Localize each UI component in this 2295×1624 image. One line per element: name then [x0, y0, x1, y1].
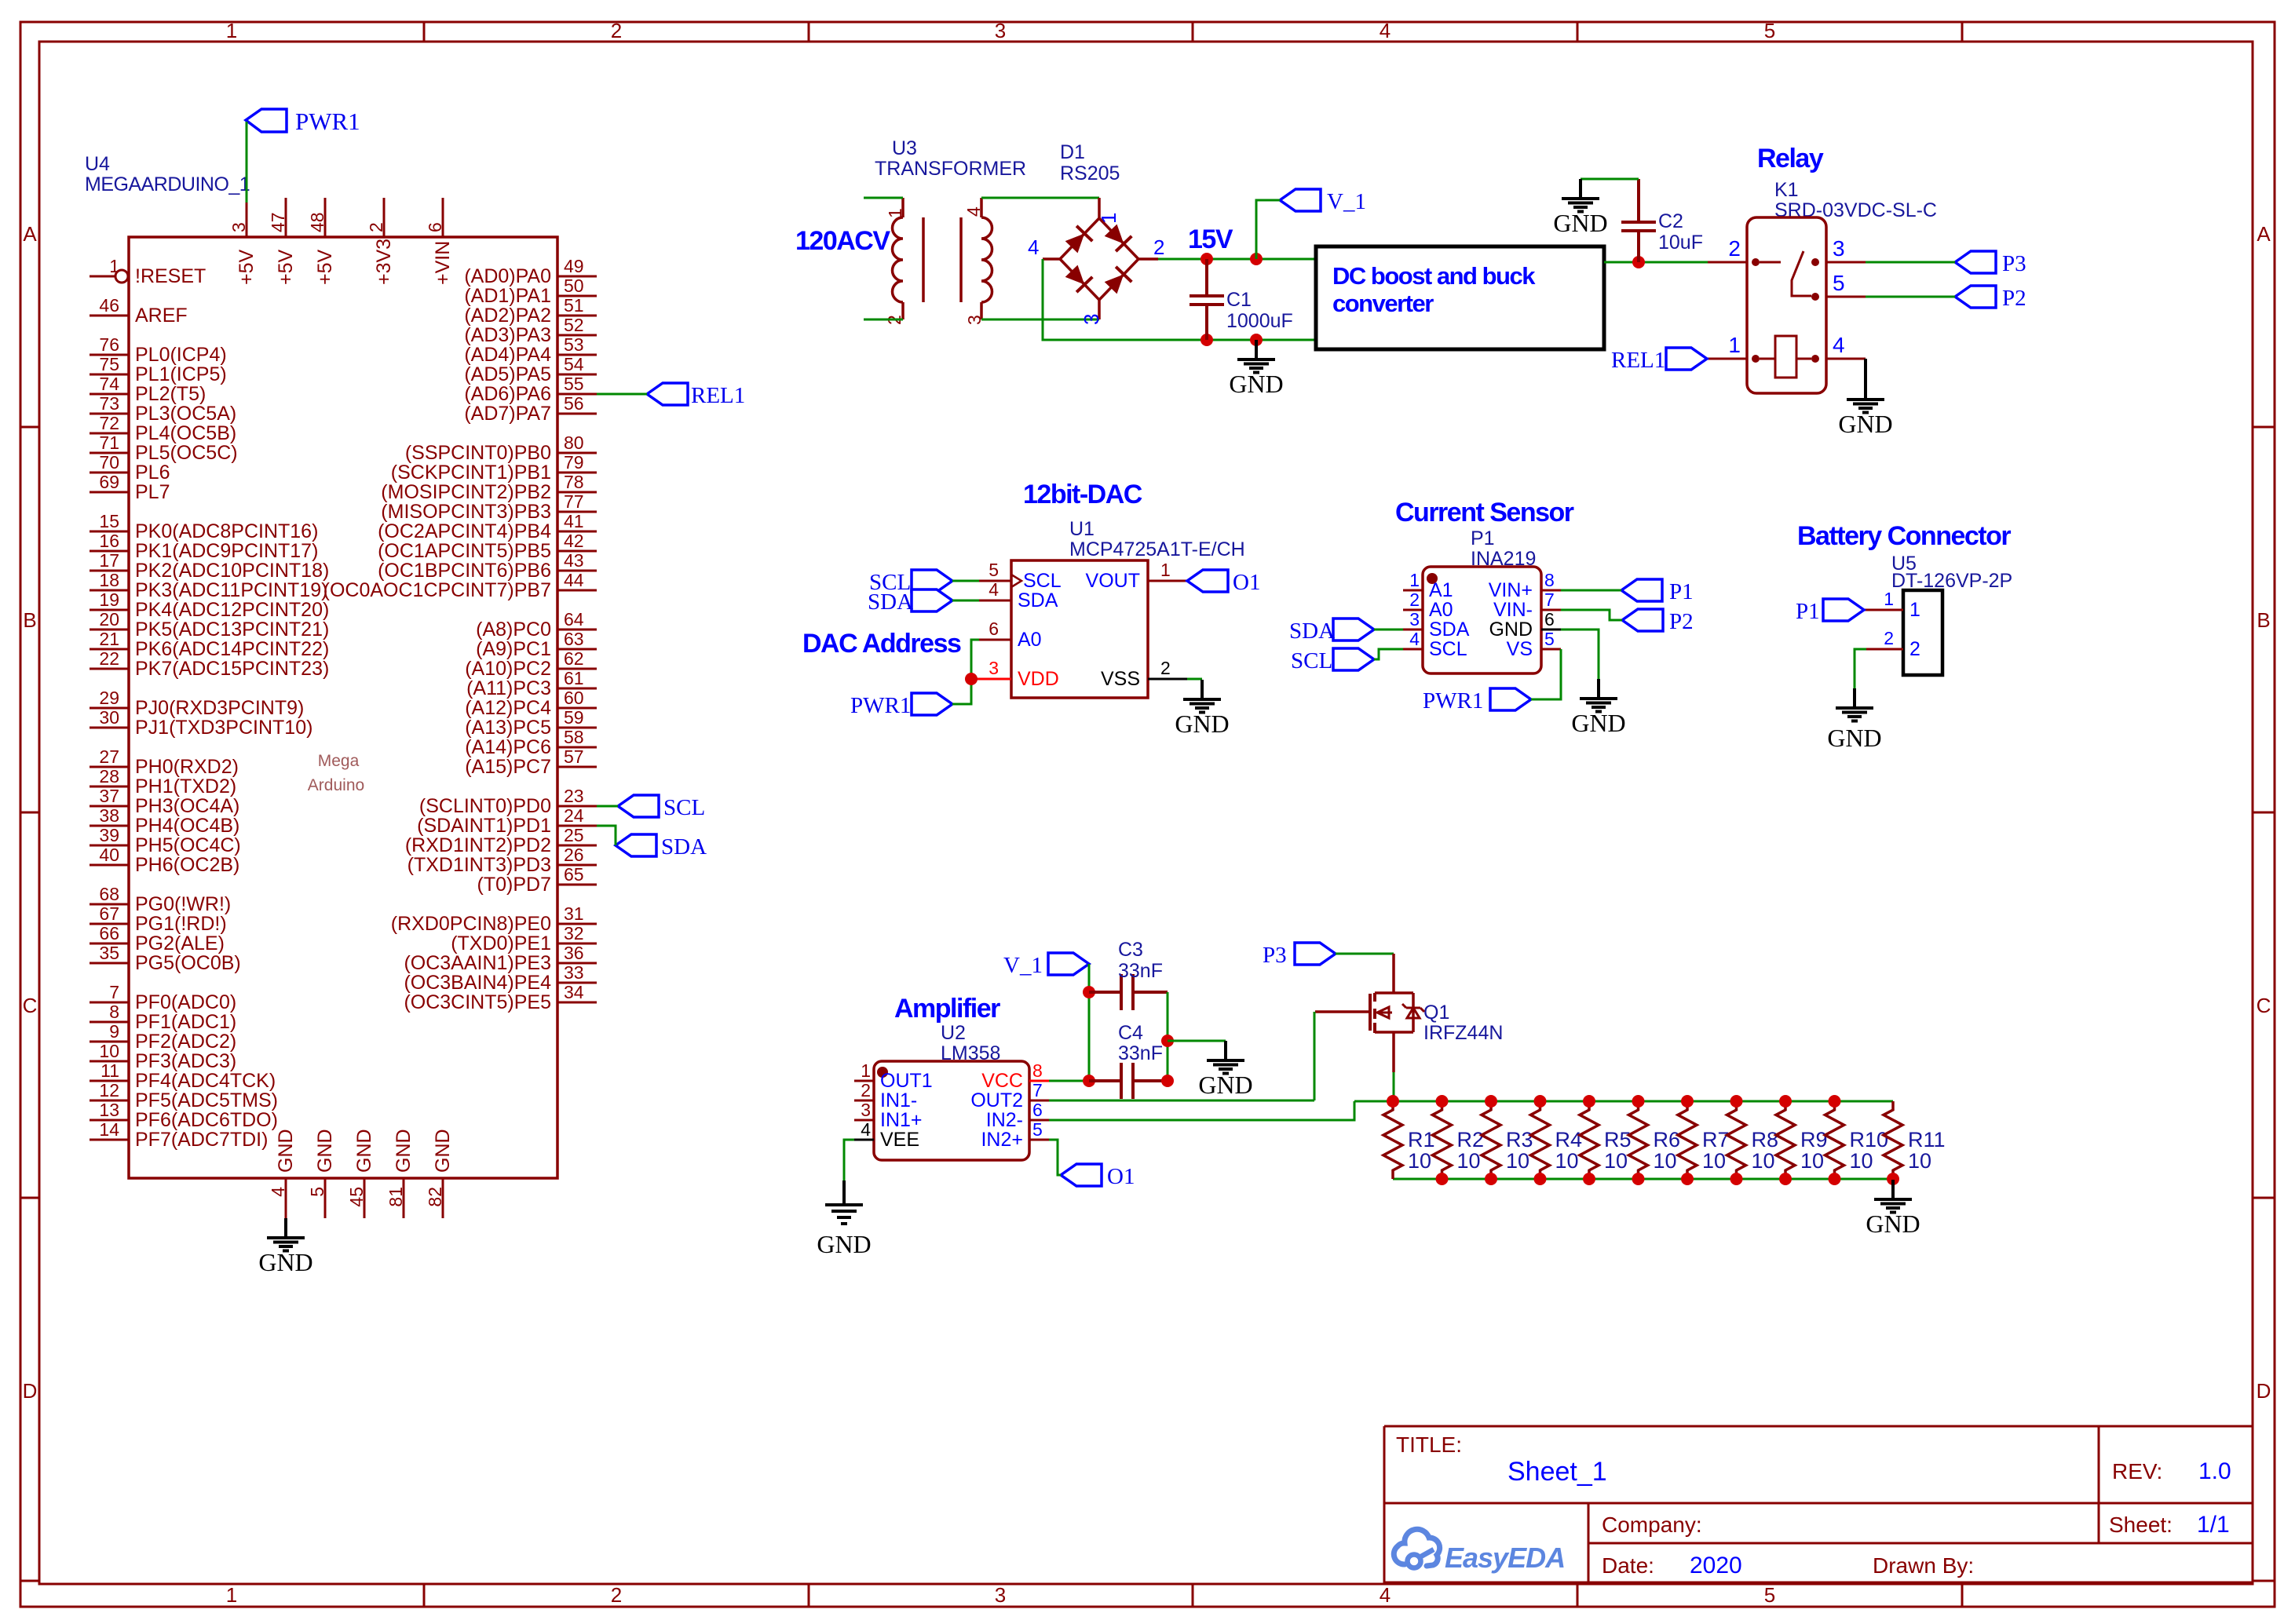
U4 pin 82 GND — [442, 1178, 444, 1218]
svg-text:1000uF: 1000uF — [1226, 310, 1293, 332]
net flag P3 (Q1 drain) — [1263, 943, 1336, 968]
svg-text:PK7(ADC15PCINT23): PK7(ADC15PCINT23) — [135, 658, 329, 680]
wire U2 IN2+ to O1 — [1049, 1140, 1061, 1175]
resistor R10 10 — [1825, 1101, 1889, 1179]
svg-text:GND: GND — [314, 1129, 336, 1173]
svg-text:R1: R1 — [1408, 1128, 1435, 1151]
svg-text:10: 10 — [1555, 1149, 1579, 1173]
U4 pin 24 (SDAINT1)PD1 — [557, 825, 597, 827]
svg-text:(A14)PC6: (A14)PC6 — [465, 736, 551, 758]
U4 pin 70 PL6 — [90, 472, 129, 474]
U4 pin 56 (AD7)PA7 — [557, 413, 597, 415]
U4 pin 1 !RESET — [90, 276, 115, 278]
svg-text:PK2(ADC10PCINT18): PK2(ADC10PCINT18) — [135, 560, 329, 582]
svg-text:PWR1: PWR1 — [850, 693, 911, 718]
svg-text:C: C — [23, 994, 38, 1017]
capacitor C3 33nF — [1089, 939, 1168, 1010]
resistor R8 10 — [1727, 1101, 1779, 1179]
U4 pin 23 (SCLINT0)PD0 — [557, 805, 597, 808]
wire bridge pin4 to ground rail — [1043, 259, 1316, 340]
svg-text:5: 5 — [1764, 1583, 1775, 1607]
svg-text:1: 1 — [885, 208, 905, 218]
U1 pin 4 SDA — [979, 600, 1011, 602]
svg-text:1.0: 1.0 — [2198, 1458, 2231, 1484]
wire INA GND pin to ground — [1561, 630, 1599, 679]
svg-text:(SSPCINT0)PB0: (SSPCINT0)PB0 — [405, 442, 551, 464]
wire transformer pin2 stub — [864, 319, 903, 321]
svg-text:PL1(ICP5): PL1(ICP5) — [135, 363, 227, 385]
svg-text:39: 39 — [99, 825, 119, 845]
title block — [1384, 1426, 2253, 1584]
svg-text:13: 13 — [99, 1100, 119, 1120]
op-amp U2 LM358 — [854, 1022, 1049, 1160]
wire SCL flag to INA pin4 — [1374, 649, 1403, 659]
svg-text:6: 6 — [1032, 1100, 1043, 1120]
svg-text:VIN-: VIN- — [1493, 599, 1533, 621]
svg-text:46: 46 — [99, 295, 119, 316]
svg-text:2: 2 — [611, 1583, 622, 1607]
svg-text:4: 4 — [1380, 1583, 1391, 1607]
node junction C4 left / VCC — [1083, 1075, 1095, 1087]
resistor R2 10 — [1433, 1101, 1485, 1179]
U4 pin 81 GND — [403, 1178, 405, 1218]
svg-text:PH3(OC4A): PH3(OC4A) — [135, 795, 239, 817]
svg-text:3: 3 — [989, 658, 999, 678]
svg-text:PWR1: PWR1 — [1423, 688, 1483, 713]
net flag O1 (DAC VOUT) — [1187, 570, 1260, 595]
wire V_1 to 15V rail — [1256, 200, 1280, 259]
svg-text:R11: R11 — [1908, 1128, 1946, 1151]
net flag V_1 (amplifier VCC) — [1003, 953, 1089, 978]
svg-text:PJ0(RXD3PCINT9): PJ0(RXD3PCINT9) — [135, 697, 304, 719]
resistor R6 10 — [1629, 1101, 1681, 1179]
U4 pin 19 PK4(ADC12PCINT20) — [90, 609, 129, 611]
svg-text:VDD: VDD — [1018, 668, 1059, 690]
svg-text:(AD5)PA5: (AD5)PA5 — [464, 363, 551, 385]
U4 pin 15 PK0(ADC8PCINT16) — [90, 531, 129, 533]
svg-text:PL4(OC5B): PL4(OC5B) — [135, 422, 236, 444]
U4 pin 41 (OC2APCINT4)PB4 — [557, 531, 597, 533]
svg-text:(TXD1INT3)PD3: (TXD1INT3)PD3 — [407, 854, 551, 876]
svg-text:PK4(ADC12PCINT20): PK4(ADC12PCINT20) — [135, 599, 329, 621]
net flag P2 (INA VIN-) — [1622, 609, 1694, 634]
wire Q1 source to rail — [1393, 1072, 1395, 1101]
svg-text:Q1: Q1 — [1423, 1002, 1449, 1024]
svg-text:5: 5 — [1544, 629, 1555, 649]
svg-text:GND: GND — [1553, 209, 1607, 237]
P1 pin 7 VIN- — [1541, 609, 1561, 611]
svg-text:4: 4 — [861, 1119, 871, 1140]
svg-text:IN1+: IN1+ — [880, 1109, 923, 1131]
U4 pin 22 PK7(ADC15PCINT23) — [90, 668, 129, 670]
svg-text:SCL: SCL — [1023, 570, 1062, 592]
ground at DAC VSS — [1200, 680, 1204, 699]
svg-text:OUT1: OUT1 — [880, 1070, 933, 1092]
svg-text:51: 51 — [564, 295, 584, 316]
svg-text:4: 4 — [989, 579, 999, 600]
svg-text:52: 52 — [564, 315, 584, 335]
svg-text:58: 58 — [564, 727, 584, 747]
svg-text:(AD7)PA7: (AD7)PA7 — [464, 403, 551, 425]
svg-text:(AD4)PA4: (AD4)PA4 — [464, 344, 551, 366]
svg-text:11: 11 — [100, 1060, 119, 1081]
wire Q1 gate riser — [1314, 1012, 1316, 1100]
svg-text:U4: U4 — [85, 153, 110, 175]
svg-text:81: 81 — [386, 1187, 406, 1207]
current sensor P1 INA219 — [1403, 527, 1561, 673]
svg-text:O1: O1 — [1107, 1164, 1135, 1189]
U4 pin 20 PK5(ADC13PCINT21) — [90, 629, 129, 631]
svg-text:5: 5 — [1833, 271, 1845, 295]
svg-text:PF0(ADC0): PF0(ADC0) — [135, 991, 236, 1013]
K1 pin 5 — [1826, 296, 1866, 298]
U1 pin 3 VDD — [971, 678, 1011, 681]
U4 pin 17 PK2(ADC10PCINT18) — [90, 570, 129, 572]
U4 pin 58 (A14)PC6 — [557, 746, 597, 749]
svg-text:R2: R2 — [1457, 1128, 1485, 1151]
svg-text:GND: GND — [258, 1248, 312, 1276]
svg-text:GND: GND — [275, 1129, 297, 1173]
U4 pin 43 (OC1BPCINT6)PB6 — [557, 570, 597, 572]
U4 pin 72 PL4(OC5B) — [90, 432, 129, 435]
ground at R11 — [1891, 1180, 1895, 1199]
svg-text:53: 53 — [564, 334, 584, 355]
U2 pin 4 VEE — [854, 1139, 874, 1141]
U4 pin 57 (A15)PC7 — [557, 766, 597, 768]
svg-text:PK6(ADC14PCINT22): PK6(ADC14PCINT22) — [135, 638, 329, 660]
U2 pin 3 IN1+ — [854, 1119, 874, 1122]
wire U2 IN2- to resistor rail — [1049, 1101, 1354, 1120]
svg-text:55: 55 — [564, 374, 584, 394]
U4 pin 75 PL1(ICP5) — [90, 374, 129, 376]
svg-text:10: 10 — [1604, 1149, 1628, 1173]
net flag P1 (battery pin1) — [1796, 599, 1864, 624]
wire relay pin3 to P3 — [1866, 261, 1955, 264]
svg-text:15V: 15V — [1188, 224, 1233, 254]
U4 pin 9 PF2(ADC2) — [90, 1041, 129, 1043]
U2 pin 7 OUT2 — [1029, 1100, 1049, 1102]
U4 pin 74 PL2(T5) — [90, 393, 129, 396]
svg-text:3: 3 — [861, 1100, 871, 1120]
wire U4 PD1 to SDA flag — [597, 826, 616, 845]
U4 pin 54 (AD5)PA5 — [557, 374, 597, 376]
svg-text:73: 73 — [99, 393, 119, 414]
svg-text:45: 45 — [346, 1187, 367, 1207]
resistor R5 10 — [1580, 1101, 1632, 1179]
svg-text:9: 9 — [109, 1021, 119, 1042]
U4 pin 49 (AD0)PA0 — [557, 276, 597, 278]
U4 pin 10 PF3(ADC3) — [90, 1060, 129, 1063]
svg-text:(MOSIPCINT2)PB2: (MOSIPCINT2)PB2 — [381, 481, 551, 503]
DAC U1 MCP4725A1T-E/CH — [971, 518, 1245, 698]
U4 pin 66 PG2(ALE) — [90, 943, 129, 945]
svg-text:VCC: VCC — [981, 1070, 1023, 1092]
wire INA VS to PWR1 — [1531, 649, 1561, 699]
svg-text:P3: P3 — [1263, 943, 1287, 968]
svg-text:68: 68 — [99, 884, 119, 904]
svg-text:OUT2: OUT2 — [970, 1089, 1023, 1111]
svg-text:O1: O1 — [1233, 570, 1260, 595]
svg-text:+3V3: +3V3 — [373, 239, 395, 285]
svg-text:50: 50 — [564, 276, 584, 296]
wire transformer pin1 stub — [864, 197, 903, 199]
U4 pin 64 (A8)PC0 — [557, 629, 597, 631]
wire PWR1 to DAC VDD and A0 — [952, 640, 979, 704]
wire battery pin2 to ground — [1855, 649, 1866, 688]
svg-text:34: 34 — [564, 982, 584, 1002]
svg-text:3: 3 — [1833, 236, 1845, 261]
svg-text:!RESET: !RESET — [135, 265, 206, 287]
svg-text:12bit-DAC: 12bit-DAC — [1023, 480, 1142, 509]
svg-text:R9: R9 — [1800, 1128, 1828, 1151]
svg-text:7: 7 — [109, 982, 119, 1002]
ground at INA GND — [1597, 679, 1600, 698]
svg-text:57: 57 — [564, 746, 584, 767]
U4 pin 34 (OC3CINT5)PE5 — [557, 1002, 597, 1004]
capacitor C4 33nF — [1089, 1022, 1168, 1099]
net flag SDA (INA219) — [1289, 619, 1374, 644]
ground below C1 rail — [1255, 340, 1258, 359]
wire PWR1 to U4 pin 3 — [246, 122, 248, 203]
U4 pin 13 PF6(ADC6TDO) — [90, 1119, 129, 1122]
ground at U2 VEE — [817, 1181, 871, 1258]
node junction DAC VDD — [965, 673, 978, 685]
node rail top junction — [1534, 1095, 1547, 1108]
svg-text:1: 1 — [1160, 560, 1171, 580]
U4 pin 29 PJ0(RXD3PCINT9) — [90, 707, 129, 710]
svg-text:D1: D1 — [1060, 141, 1085, 163]
node rail bottom junction — [1887, 1173, 1899, 1185]
U4 pin 63 (A9)PC1 — [557, 648, 597, 651]
svg-text:(SCLINT0)PD0: (SCLINT0)PD0 — [419, 795, 551, 817]
svg-text:26: 26 — [564, 845, 584, 865]
svg-text:(SDAINT1)PD1: (SDAINT1)PD1 — [417, 815, 551, 837]
U1 pin 5 SCL — [979, 580, 1011, 582]
svg-text:49: 49 — [564, 256, 584, 276]
svg-text:A0: A0 — [1018, 629, 1042, 651]
svg-text:A: A — [2257, 222, 2271, 246]
wire relay pin5 to P2 — [1866, 296, 1955, 298]
transistor Q1 IRFZ44N — [1315, 954, 1503, 1072]
svg-text:GND: GND — [1229, 370, 1283, 398]
svg-text:SDA: SDA — [868, 589, 913, 615]
U4 pin 69 PL7 — [90, 491, 129, 494]
svg-text:Sheet:: Sheet: — [2109, 1513, 2173, 1537]
net flag REL1 (relay pin1) — [1611, 348, 1707, 373]
wire U2 OUT2 to Q1 gate — [1049, 1100, 1314, 1102]
svg-text:PWR1: PWR1 — [295, 108, 360, 135]
ground at C3/C4 — [1224, 1041, 1227, 1060]
svg-text:GND: GND — [1827, 724, 1881, 752]
svg-text:24: 24 — [564, 805, 584, 826]
U4 pin 55 (AD6)PA6 — [557, 393, 597, 396]
net flag SCL (DAC) — [869, 570, 952, 595]
svg-text:25: 25 — [564, 825, 584, 845]
U4 pin 25 (RXD1INT2)PD2 — [557, 845, 597, 847]
wire bridge pin2 to DC converter (15V rail) — [1158, 258, 1316, 261]
U4 pin 8 PF1(ADC1) — [90, 1021, 129, 1024]
svg-text:56: 56 — [564, 393, 584, 414]
svg-text:74: 74 — [99, 374, 119, 394]
U4 pin 4 GND — [285, 1178, 287, 1218]
svg-text:R3: R3 — [1506, 1128, 1533, 1151]
svg-text:PH1(TXD2): PH1(TXD2) — [135, 776, 236, 797]
svg-text:(AD1)PA1: (AD1)PA1 — [464, 285, 551, 307]
wire U4 PA6 to REL1 flag — [597, 393, 647, 396]
svg-text:1: 1 — [861, 1060, 871, 1081]
svg-text:(RXD0PCIN8)PE0: (RXD0PCIN8)PE0 — [391, 913, 551, 935]
svg-text:77: 77 — [564, 491, 584, 512]
wire resistor top rail — [1354, 1100, 1893, 1103]
svg-text:PF3(ADC3): PF3(ADC3) — [135, 1050, 236, 1072]
U4 pin 73 PL3(OC5A) — [90, 413, 129, 415]
svg-text:R7: R7 — [1702, 1128, 1730, 1151]
net flag P2 (relay pin5) — [1955, 286, 2026, 311]
svg-text:4: 4 — [1380, 19, 1391, 42]
svg-text:20: 20 — [99, 609, 119, 630]
svg-text:3: 3 — [228, 222, 249, 232]
svg-text:R5: R5 — [1604, 1128, 1632, 1151]
svg-text:78: 78 — [564, 472, 584, 492]
svg-text:P2: P2 — [2002, 286, 2026, 311]
svg-text:76: 76 — [99, 334, 119, 355]
svg-text:23: 23 — [564, 786, 584, 806]
node gnd junction at C1 — [1200, 334, 1213, 346]
svg-text:2: 2 — [1884, 628, 1894, 648]
svg-text:18: 18 — [99, 570, 119, 590]
svg-text:10: 10 — [1702, 1149, 1726, 1173]
svg-text:10: 10 — [1654, 1149, 1677, 1173]
svg-text:GND: GND — [1838, 410, 1892, 438]
svg-text:3: 3 — [1409, 609, 1420, 630]
U4 pin 39 PH5(OC4C) — [90, 845, 129, 847]
resistor R11 10 — [1884, 1101, 1946, 1179]
U4 pin 11 PF4(ADC4TCK) — [90, 1080, 129, 1082]
wire transformer pin4 to bridge pin1 — [981, 197, 1099, 199]
wire transformer pin3 to bridge pin3 — [981, 319, 1099, 321]
svg-text:DC boost and buck: DC boost and buck — [1332, 262, 1536, 290]
U4 pin 67 PG1(!RD!) — [90, 923, 129, 925]
node rail bottom junction — [1730, 1173, 1743, 1185]
svg-text:1/1: 1/1 — [2197, 1512, 2230, 1538]
bridge rectifier D1 RS205 — [1028, 141, 1164, 325]
svg-text:PF2(ADC2): PF2(ADC2) — [135, 1031, 236, 1053]
ground at battery pin2 — [1853, 688, 1856, 707]
svg-text:K1: K1 — [1774, 179, 1799, 201]
wire INA VIN- to P2 — [1561, 610, 1622, 620]
svg-text:10: 10 — [1850, 1149, 1873, 1173]
svg-text:VS: VS — [1507, 638, 1533, 660]
svg-text:R8: R8 — [1752, 1128, 1779, 1151]
svg-text:U2: U2 — [941, 1022, 966, 1044]
svg-text:29: 29 — [99, 688, 119, 708]
svg-text:59: 59 — [564, 707, 584, 728]
U4 pin 80 (SSPCINT0)PB0 — [557, 452, 597, 454]
U1 pin 1 VOUT — [1148, 580, 1187, 582]
capacitor C2 10uF — [1621, 179, 1703, 262]
U4 pin 59 (A13)PC5 — [557, 727, 597, 729]
U2 pin 5 IN2+ — [1029, 1139, 1049, 1141]
wire C3/C4 to ground — [1168, 1040, 1226, 1042]
U4 pin 51 (AD2)PA2 — [557, 315, 597, 317]
svg-text:P1: P1 — [1669, 579, 1694, 604]
svg-text:(OC0AOC1CPCINT7)PB7: (OC0AOC1CPCINT7)PB7 — [323, 579, 551, 601]
svg-text:10: 10 — [1800, 1149, 1824, 1173]
svg-text:GND: GND — [1866, 1210, 1920, 1238]
EasyEDA logo — [1394, 1529, 1565, 1574]
svg-text:28: 28 — [99, 766, 119, 786]
wire C3 right to C4 right — [1167, 992, 1169, 1081]
net flag P1 (INA VIN+) — [1621, 579, 1694, 604]
node rail bottom junction — [1681, 1173, 1694, 1185]
svg-text:60: 60 — [564, 688, 584, 708]
wire P3 to Q1 drain — [1336, 953, 1394, 955]
ground at U4 GND pins — [258, 1218, 312, 1276]
U4 pin 45 GND — [364, 1178, 366, 1218]
svg-text:P2: P2 — [1669, 609, 1694, 634]
resistor R4 10 — [1531, 1101, 1583, 1179]
svg-text:B: B — [2257, 608, 2270, 632]
svg-text:Sheet_1: Sheet_1 — [1507, 1457, 1607, 1487]
net flag P3 (relay pin3) — [1955, 251, 2026, 276]
U4 pin 5 GND — [324, 1178, 327, 1218]
node 15V junction at C1 — [1200, 253, 1213, 265]
svg-text:3: 3 — [995, 1583, 1006, 1607]
svg-text:VEE: VEE — [880, 1129, 919, 1151]
U4 pin 78 (MOSIPCINT2)PB2 — [557, 491, 597, 494]
svg-text:D: D — [23, 1379, 38, 1403]
svg-text:10: 10 — [1908, 1149, 1931, 1173]
P1 pin 5 VS — [1541, 648, 1561, 651]
svg-text:P1: P1 — [1796, 599, 1820, 624]
U4 pin 42 (OC1APCINT5)PB5 — [557, 550, 597, 553]
svg-text:3: 3 — [995, 19, 1006, 42]
svg-text:2: 2 — [1728, 236, 1741, 261]
svg-text:PF6(ADC6TDO): PF6(ADC6TDO) — [135, 1109, 278, 1131]
svg-text:A0: A0 — [1429, 599, 1453, 621]
resistor R7 10 — [1678, 1101, 1730, 1179]
U5 pin 2 — [1866, 648, 1903, 651]
svg-text:Arduino: Arduino — [308, 776, 364, 794]
svg-text:GND: GND — [817, 1230, 871, 1258]
wire U2 VEE to ground — [844, 1140, 854, 1181]
node rail bottom junction — [1583, 1173, 1595, 1185]
svg-text:EasyEDA: EasyEDA — [1445, 1542, 1565, 1574]
svg-text:TRANSFORMER: TRANSFORMER — [875, 158, 1026, 180]
svg-text:MCP4725A1T-E/CH: MCP4725A1T-E/CH — [1069, 538, 1245, 560]
svg-text:C3: C3 — [1118, 939, 1143, 961]
svg-text:54: 54 — [564, 354, 584, 374]
svg-text:4: 4 — [1028, 235, 1039, 259]
svg-text:Amplifier: Amplifier — [894, 994, 1000, 1024]
svg-text:2: 2 — [1409, 589, 1420, 610]
svg-text:30: 30 — [99, 707, 119, 728]
svg-text:GND: GND — [1571, 709, 1625, 737]
svg-text:REL1: REL1 — [691, 383, 745, 408]
svg-text:5: 5 — [1764, 19, 1775, 42]
svg-text:TITLE:: TITLE: — [1396, 1432, 1462, 1457]
svg-text:2020: 2020 — [1690, 1553, 1742, 1578]
svg-text:(OC3BAIN4)PE4: (OC3BAIN4)PE4 — [404, 972, 551, 994]
svg-text:PH4(OC4B): PH4(OC4B) — [135, 815, 239, 837]
svg-text:1: 1 — [1728, 333, 1741, 357]
svg-text:+5V: +5V — [236, 249, 258, 285]
svg-text:3: 3 — [1080, 314, 1103, 325]
svg-text:4: 4 — [1409, 629, 1420, 649]
svg-text:2: 2 — [611, 19, 622, 42]
svg-text:R10: R10 — [1850, 1128, 1889, 1151]
U4 pin 35 PG5(OC0B) — [90, 962, 129, 965]
